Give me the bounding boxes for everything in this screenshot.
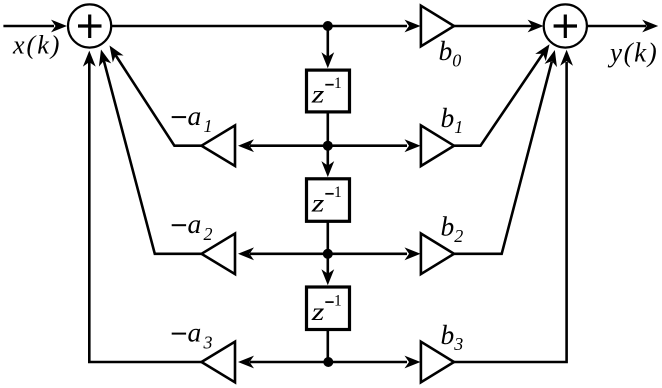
node A junction dot	[323, 21, 333, 31]
label -a1	[172, 116, 186, 118]
wire node C down into delay 3	[326, 254, 329, 275]
wire b2 to right sum	[454, 62, 552, 254]
svg-text:z: z	[311, 81, 325, 109]
svg-text:1: 1	[334, 184, 342, 201]
delay z^-1 block 3	[307, 287, 350, 330]
svg-text:y(k): y(k)	[607, 38, 658, 68]
wire node B down into delay 2	[326, 146, 329, 167]
svg-text:z: z	[311, 298, 325, 326]
wire left sum to node A	[111, 25, 328, 28]
wire node D to amplifier b3	[328, 361, 407, 364]
svg-text:a3: a3	[188, 317, 213, 353]
wire b0 to right sum	[454, 25, 532, 28]
node B junction dot	[323, 141, 333, 151]
wire node D to amplifier a3	[250, 361, 328, 364]
svg-text:a1: a1	[188, 100, 213, 136]
wire node B to amplifier b1	[328, 144, 407, 147]
wire a3 to left sum	[89, 62, 201, 362]
wire delay3 to node D	[326, 330, 329, 363]
svg-text:a2: a2	[188, 208, 213, 244]
svg-text:b2: b2	[441, 211, 464, 246]
wire a1 to left sum	[116, 55, 202, 146]
svg-text:b3: b3	[441, 319, 464, 354]
svg-text:b1: b1	[441, 102, 464, 137]
wire node C to amplifier b2	[328, 253, 407, 256]
amplifier b2	[421, 234, 454, 275]
wire node A down into delay 1	[326, 26, 329, 58]
wire output y(k)	[587, 25, 646, 28]
wire b1 to right sum	[454, 54, 543, 146]
amplifier -a3	[202, 342, 236, 383]
amplifier -a1	[202, 125, 236, 166]
wire b3 to right sum	[454, 62, 567, 362]
svg-text:1: 1	[334, 75, 342, 92]
delay z^-1 block 1	[307, 70, 350, 112]
wire a2 to left sum	[104, 61, 202, 254]
wire input x(k)	[3, 25, 54, 28]
node D junction dot	[323, 357, 333, 367]
svg-text:x(k): x(k)	[12, 31, 61, 60]
amplifier -a2	[202, 234, 236, 275]
svg-text:b0: b0	[439, 35, 462, 70]
svg-text:z: z	[311, 190, 325, 218]
amplifier b0	[421, 6, 454, 47]
node C junction dot	[323, 249, 333, 259]
delay z^-1 block 2	[307, 179, 350, 222]
wire delay2 to node C	[326, 222, 329, 254]
label -a2	[172, 224, 186, 226]
wire node C to amplifier a2	[250, 253, 328, 256]
summing junction left	[68, 4, 111, 47]
wire node A to b0	[328, 25, 407, 28]
svg-text:1: 1	[334, 293, 342, 310]
amplifier b1	[421, 125, 454, 166]
summing junction right	[544, 4, 587, 47]
wire delay1 to node B	[326, 114, 329, 146]
label -a3	[172, 333, 186, 335]
wire node B to amplifier a1	[250, 144, 328, 147]
amplifier b3	[421, 342, 454, 383]
